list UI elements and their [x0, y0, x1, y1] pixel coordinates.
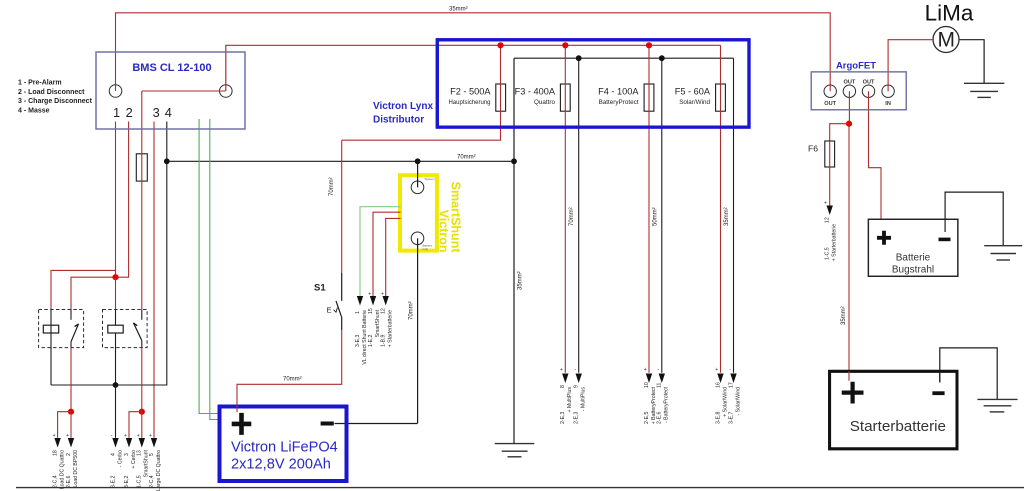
- svg-text:System: System: [425, 177, 436, 181]
- junction BatteryProtect minus on bus: [659, 55, 665, 61]
- svg-text:+ Starterbatterie: + Starterbatterie: [388, 310, 394, 347]
- svg-text:1: 1: [355, 311, 361, 314]
- arrows bottom left group: [54, 438, 157, 448]
- svg-text:+: +: [824, 201, 827, 207]
- wire F3 column Quattro plus: [564, 45, 566, 372]
- border redraw Lynx box: [437, 40, 749, 127]
- BMS CL 12-100 box U1: [96, 52, 245, 129]
- frame bottom line: [16, 487, 1024, 489]
- fuse F4 100A: [644, 84, 654, 111]
- svg-text:5: 5: [149, 453, 155, 456]
- svg-text:OUT: OUT: [863, 79, 875, 85]
- wire BatteryProtect minus: [661, 58, 663, 373]
- battery Starterbatterie box: [830, 371, 957, 449]
- junction F3 on red bus: [562, 42, 568, 48]
- ground symbol main: [495, 444, 535, 457]
- svg-text:- Solar/Wind: - Solar/Wind: [735, 387, 741, 416]
- svg-text:OUT: OUT: [824, 101, 836, 107]
- svg-text:2x12,8V 200Ah: 2x12,8V 200Ah: [231, 457, 331, 473]
- ground symbol LiMa: [964, 83, 1004, 97]
- svg-text:OUT: OUT: [843, 79, 855, 85]
- battery Victron LiFePO4: [220, 407, 347, 482]
- relay K2 coil: [108, 325, 123, 333]
- svg-text:Starterbatterie: Starterbatterie: [850, 418, 946, 435]
- ArgoFET terminal OUT1: [824, 85, 836, 97]
- svg-text:12: 12: [825, 217, 831, 223]
- svg-text:IN: IN: [885, 101, 891, 107]
- svg-text:1-C,5: 1-C,5: [825, 247, 831, 260]
- Starterbatterie minus terminal: [932, 391, 944, 395]
- fuse F1 below BMS: [136, 154, 147, 181]
- wire ArgoFET OUT2 to Starterbatterie: [848, 91, 850, 124]
- svg-text:3-E,8: 3-E,8: [715, 411, 721, 424]
- junction pin4 70mm2: [164, 158, 170, 164]
- wire BMS pin3 down: [153, 122, 155, 438]
- svg-text:3: 3: [124, 453, 130, 456]
- wire stub Starterbatterie plus inside: [848, 371, 850, 381]
- svg-text:+ Starterbatterie: + Starterbatterie: [832, 224, 838, 261]
- ArgoFET terminal OUT2: [843, 85, 855, 97]
- svg-text:2-C,4: 2-C,4: [149, 475, 155, 488]
- svg-text:2-E,6: 2-E,6: [66, 475, 72, 488]
- svg-text:2-C,4: 2-C,4: [52, 475, 58, 488]
- wire ground bus down arrow: [115, 385, 117, 438]
- svg-text:only: only: [423, 247, 429, 251]
- svg-text:Victron LiFePO4: Victron LiFePO4: [231, 440, 338, 456]
- svg-text:F4 - 100A: F4 - 100A: [598, 86, 639, 96]
- wire left switch down: [70, 348, 72, 412]
- fuse F3 400A: [560, 84, 570, 111]
- alternator M symbol: [933, 27, 959, 53]
- junction node pin1/pin2: [112, 274, 118, 280]
- Victron SmartShunt box: [400, 175, 437, 250]
- svg-text:F6: F6: [808, 144, 818, 154]
- svg-text:Victron Lynx: Victron Lynx: [373, 101, 433, 112]
- svg-text:+: +: [368, 291, 371, 297]
- plus minus marks above arrows: [560, 367, 731, 373]
- border redraw LiFePO4 box: [220, 407, 347, 482]
- svg-text:1 - Pre-Alarm: 1 - Pre-Alarm: [18, 80, 62, 87]
- svg-text:35mm²: 35mm²: [518, 271, 524, 290]
- border redraw ArgoFET box: [811, 72, 906, 110]
- SmartShunt terminal battery: [411, 232, 424, 245]
- junction left switch split: [68, 409, 74, 415]
- svg-text:BatteryProtect: BatteryProtect: [599, 99, 639, 106]
- svg-text:11: 11: [657, 383, 663, 388]
- ground symbol Starterbatterie: [977, 399, 1017, 412]
- wire LiMa to ArgoFET IN: [888, 40, 933, 91]
- svg-text:Victron: Victron: [437, 210, 451, 253]
- svg-text:F2 - 500A: F2 - 500A: [450, 86, 491, 96]
- svg-text:3-E,7: 3-E,7: [728, 411, 734, 424]
- fuse F5 60A: [716, 84, 726, 111]
- svg-text:3-E,2: 3-E,2: [124, 475, 130, 488]
- wire right relay coil from junction: [115, 277, 117, 309]
- wire shunt aux red 1: [373, 212, 401, 298]
- svg-text:1-B,9: 1-B,9: [381, 334, 387, 347]
- wire BMS green sense 2: [210, 119, 218, 420]
- fuse F6: [825, 141, 835, 167]
- svg-text:70mm²: 70mm²: [329, 177, 335, 196]
- ArgoFET box U2: [811, 72, 906, 110]
- svg-text:1-E,2: 1-E,2: [368, 334, 374, 347]
- svg-text:4 - Masse: 4 - Masse: [18, 107, 50, 114]
- svg-text:2: 2: [126, 105, 133, 120]
- svg-text:+: +: [715, 367, 718, 373]
- svg-text:9: 9: [574, 385, 580, 388]
- Victron Lynx Distributor box: [437, 40, 749, 127]
- Bugstrahl minus terminal: [939, 238, 951, 242]
- svg-text:F5 - 60A: F5 - 60A: [675, 86, 711, 96]
- svg-text:1-C,5: 1-C,5: [137, 475, 143, 488]
- wire Bugstrahl minus to ground: [945, 192, 1003, 245]
- wire F4 column BatteryProtect plus: [648, 45, 650, 372]
- svg-text:3: 3: [153, 105, 160, 120]
- junction 70mm2 bus and shunt: [415, 158, 421, 164]
- svg-text:F3 - 400A: F3 - 400A: [515, 86, 556, 96]
- Bugstrahl plus terminal: [877, 231, 891, 245]
- wire ArgoFET OUT3 to Bugstrahl: [869, 91, 882, 219]
- junction F4 on red bus: [646, 42, 652, 48]
- svg-text:E: E: [327, 306, 332, 315]
- svg-text:BMS CL 12-100: BMS CL 12-100: [132, 62, 211, 74]
- svg-text:+: +: [149, 433, 152, 439]
- BMS terminal circle left: [109, 85, 122, 98]
- svg-text:35mm²: 35mm²: [841, 306, 847, 325]
- svg-text:3 - Charge Disconnect: 3 - Charge Disconnect: [18, 98, 93, 105]
- svg-text:Bugstrahl: Bugstrahl: [892, 265, 934, 276]
- wire BMS pin4 ground bus: [51, 122, 167, 386]
- labels Lynx load wires: [560, 382, 741, 424]
- arrows Lynx loads: [562, 374, 737, 384]
- junction 70mm2 bus and ground wire: [511, 158, 517, 164]
- svg-text:Hauptsicherung: Hauptsicherung: [448, 100, 490, 106]
- wire 70mm2 horizontal bus: [167, 160, 514, 162]
- SmartShunt terminal system: [411, 181, 424, 194]
- svg-text:4: 4: [110, 453, 116, 456]
- svg-text:Distributor: Distributor: [373, 115, 424, 126]
- svg-text:2-E,3: 2-E,3: [574, 411, 580, 424]
- svg-text:+: +: [53, 433, 56, 439]
- svg-text:S1: S1: [314, 283, 326, 294]
- wire 35mm2 feed BMS to ArgoFET: [116, 13, 831, 85]
- wire F2 column to battery plus feed: [342, 45, 501, 140]
- svg-text:18: 18: [52, 450, 58, 456]
- svg-text:-: -: [729, 367, 731, 373]
- wire shunt battery to LiFePO4 minus: [417, 238, 419, 423]
- arrows shunt aux: [357, 296, 389, 306]
- wire shunt system to 70mm2 bus: [417, 161, 419, 187]
- svg-text:- Cerbo: - Cerbo: [117, 450, 123, 467]
- svg-text:2-E,5: 2-E,5: [644, 411, 650, 424]
- relay K1 coil: [43, 325, 58, 333]
- svg-text:2-E,3: 2-E,3: [560, 411, 566, 424]
- wire shunt aux red 2: [386, 218, 401, 297]
- svg-text:-: -: [658, 367, 660, 373]
- svg-text:ArgoFET: ArgoFET: [836, 61, 876, 72]
- polarity marks bottom left: [53, 433, 152, 439]
- wire LiFePO4 minus to shunt: [335, 423, 418, 425]
- svg-text:+: +: [124, 433, 127, 439]
- svg-text:Batterie: Batterie: [896, 253, 931, 264]
- svg-text:35mm²: 35mm²: [449, 7, 468, 13]
- svg-text:Load DC Quattro: Load DC Quattro: [59, 450, 65, 489]
- svg-text:10: 10: [644, 382, 650, 388]
- ArgoFET terminal IN: [882, 85, 894, 97]
- wire shunt aux green: [360, 207, 401, 298]
- wire F5 column SolarWind plus: [720, 45, 722, 372]
- border redraw Starterbatterie box: [830, 371, 957, 449]
- wire branch Cerbo plus: [129, 412, 142, 438]
- LiFePO4 minus terminal: [321, 422, 334, 426]
- wire branch Load DC Quattro: [58, 412, 71, 438]
- relay K2 switch contact: [141, 310, 143, 320]
- junction right switch split: [139, 409, 145, 415]
- svg-text:2-E,6: 2-E,6: [657, 411, 663, 424]
- svg-text:13: 13: [137, 450, 143, 456]
- LiFePO4 plus terminal: [232, 413, 252, 435]
- wire LiMa to ground: [959, 40, 984, 83]
- ground symbol Bugstrahl: [984, 246, 1022, 260]
- svg-text:M: M: [937, 28, 955, 51]
- relay K1 dashed box: [39, 310, 84, 348]
- junction F2 on red bus: [497, 42, 503, 48]
- svg-text:70mm²: 70mm²: [409, 301, 415, 320]
- svg-text:Large DC Quattro: Large DC Quattro: [156, 450, 162, 491]
- border redraw Bugstrahl box: [868, 219, 958, 276]
- wire F6 branch: [830, 124, 849, 141]
- relay K2 dashed box: [103, 310, 148, 348]
- svg-text:+: +: [66, 433, 69, 439]
- wire BMS pin2 to left relay switch: [71, 122, 129, 310]
- svg-text:16: 16: [715, 382, 721, 388]
- relay K1 switch contact: [70, 310, 72, 320]
- svg-text:4: 4: [165, 105, 172, 120]
- wire Lynx bus to main ground 35mm2: [513, 58, 515, 443]
- svg-text:70mm²: 70mm²: [283, 377, 302, 383]
- Lynx black minus bus: [514, 57, 734, 59]
- svg-text:2 - Load Disconnect: 2 - Load Disconnect: [18, 89, 85, 96]
- wire BMS green sense 1: [199, 119, 217, 414]
- svg-text:Load DC BP500: Load DC BP500: [73, 450, 79, 488]
- wire S1 feed: [341, 140, 343, 273]
- svg-text:12: 12: [381, 308, 387, 314]
- svg-text:+: +: [381, 291, 384, 297]
- svg-text:17: 17: [728, 382, 734, 388]
- BMS internal wire to fuse: [142, 90, 226, 92]
- Starterbatterie plus terminal: [842, 382, 864, 404]
- fuse F2 500A: [496, 84, 506, 111]
- wire Starterbatterie minus to ground: [940, 348, 997, 399]
- svg-text:+: +: [137, 433, 140, 439]
- wire stub Starterbatterie minus inside: [939, 371, 941, 383]
- svg-text:+: +: [644, 367, 647, 373]
- svg-text:Quattro: Quattro: [534, 99, 555, 106]
- svg-text:- BatteryProtect: - BatteryProtect: [664, 386, 670, 423]
- svg-text:70mm²: 70mm²: [569, 207, 575, 226]
- junction Quattro minus on bus: [576, 55, 582, 61]
- svg-text:-: -: [575, 367, 577, 373]
- battery Bugstrahl box: [868, 219, 958, 276]
- arrow F6 wire: [827, 206, 833, 216]
- svg-text:- MultiPlus: - MultiPlus: [581, 387, 587, 412]
- labels F6 wire: [825, 217, 838, 261]
- wire BMS right circle to Lynx red bus: [226, 45, 721, 91]
- svg-text:50mm²: 50mm²: [653, 207, 659, 226]
- svg-text:1: 1: [113, 105, 120, 120]
- svg-text:Solar/Wind: Solar/Wind: [679, 99, 710, 106]
- svg-text:15: 15: [368, 308, 374, 314]
- wire SolarWind minus: [733, 58, 735, 373]
- svg-text:SmartShunt: SmartShunt: [449, 182, 463, 254]
- junction ground bus: [113, 382, 119, 388]
- svg-text:+ MultiPlus: + MultiPlus: [567, 387, 573, 413]
- wire BMS fused output to right relay switch: [141, 91, 143, 310]
- wire Quattro minus: [578, 58, 580, 373]
- svg-text:35mm²: 35mm²: [724, 207, 730, 226]
- wire right switch down: [141, 348, 143, 412]
- border redraw BMS box: [96, 52, 245, 129]
- svg-text:LiMa: LiMa: [925, 0, 974, 25]
- wire stub LiFePO4 plus inside: [236, 404, 238, 412]
- svg-text:8: 8: [560, 385, 566, 388]
- wire S1 to LiFePO4 plus 70mm2: [237, 330, 342, 413]
- wire stub ArgoFET OUT1: [829, 85, 831, 91]
- wire BMS pin1 to left relay coil and right relay coil: [115, 85, 117, 91]
- svg-text:2: 2: [66, 453, 72, 456]
- BMS terminal circle right: [220, 85, 233, 98]
- junction F6 branch: [846, 121, 852, 127]
- svg-text:+: +: [560, 367, 563, 373]
- ArgoFET terminal OUT3: [862, 85, 874, 97]
- svg-text:3-E,2: 3-E,2: [110, 475, 116, 488]
- labels shunt aux wires: [355, 308, 394, 364]
- svg-text:70mm²: 70mm²: [457, 155, 476, 161]
- svg-text:3-E,3: 3-E,3: [355, 334, 361, 347]
- labels bottom left group: [52, 449, 161, 490]
